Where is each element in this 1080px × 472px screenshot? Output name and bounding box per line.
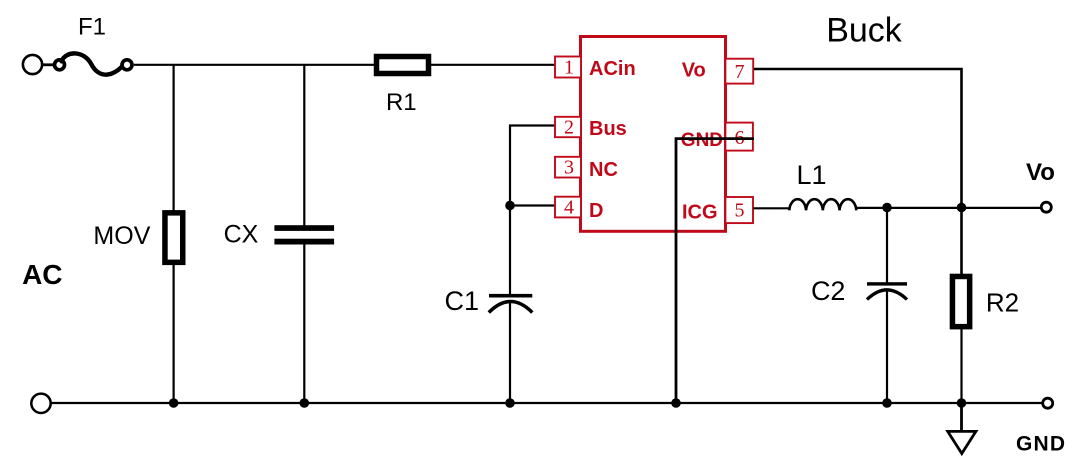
wire Vo rail xyxy=(856,207,1041,209)
resistor R2 xyxy=(952,276,969,326)
terminal Vo output xyxy=(1041,202,1051,212)
junction MOV-bottom rail xyxy=(169,398,179,408)
wire MOV branch top xyxy=(173,65,175,212)
junction C2-bottom rail xyxy=(882,398,892,408)
pin 7 xyxy=(725,59,753,84)
junction C1-bottom rail xyxy=(505,398,515,408)
pin 5 xyxy=(725,197,753,223)
terminal AC live input xyxy=(23,55,42,74)
wire CX bottom xyxy=(303,244,305,403)
junction R2-bottom rail xyxy=(957,398,967,408)
svg-text:R2: R2 xyxy=(986,288,1019,318)
svg-text:GND: GND xyxy=(1016,433,1066,456)
junction L1/C2 node xyxy=(882,203,892,213)
junction Vo node xyxy=(957,203,967,213)
svg-text:1: 1 xyxy=(564,56,574,78)
wire R2 bottom xyxy=(960,329,962,404)
svg-text:7: 7 xyxy=(735,61,745,83)
ground symbol xyxy=(948,403,976,454)
wire GND net from pin6 over IC down to bottom rail xyxy=(676,139,754,403)
svg-text:Vo: Vo xyxy=(1026,159,1055,186)
svg-text:Vo: Vo xyxy=(682,60,706,82)
terminal GND output xyxy=(1043,398,1053,408)
wire Bus net: pin2 left then down to bottom rail xyxy=(510,126,556,296)
svg-text:MOV: MOV xyxy=(93,222,150,250)
capacitor C2 xyxy=(867,208,907,403)
svg-text:2: 2 xyxy=(564,116,574,138)
terminal AC neutral input xyxy=(31,394,50,413)
svg-text:CX: CX xyxy=(224,221,259,249)
op-amp U1 IC body xyxy=(581,37,726,232)
pin 4 xyxy=(555,196,581,218)
resistor R1 xyxy=(377,57,429,74)
capacitor C1 xyxy=(489,294,533,313)
capacitor CX xyxy=(274,225,334,244)
varistor MOV xyxy=(165,213,183,263)
pin 1 xyxy=(555,56,581,78)
svg-text:AC: AC xyxy=(22,259,62,290)
inductor L1 xyxy=(789,199,856,210)
svg-text:L1: L1 xyxy=(796,160,826,190)
svg-text:F1: F1 xyxy=(78,14,106,41)
svg-text:Bus: Bus xyxy=(589,118,627,140)
wire terminal to fuse xyxy=(43,63,53,66)
svg-text:GND: GND xyxy=(681,130,723,151)
svg-text:NC: NC xyxy=(589,159,618,181)
wire bottom rail xyxy=(52,402,1042,404)
svg-text:ACin: ACin xyxy=(589,58,636,80)
svg-text:R1: R1 xyxy=(386,89,417,116)
wire CX branch top xyxy=(303,65,305,226)
wire pin5 to L1 xyxy=(754,207,790,209)
wire MOV bottom xyxy=(173,264,175,403)
svg-text:4: 4 xyxy=(564,196,574,218)
pin 3 xyxy=(555,157,581,179)
pin 2 xyxy=(555,116,581,138)
wire top rail xyxy=(134,64,556,66)
junction GND net-bottom rail xyxy=(671,398,681,408)
junction CX-bottom rail xyxy=(300,398,310,408)
svg-text:5: 5 xyxy=(735,200,745,222)
wire C1 bottom xyxy=(509,302,511,404)
wire pin7 net right and down xyxy=(754,69,962,275)
svg-text:C2: C2 xyxy=(811,276,846,306)
svg-text:C1: C1 xyxy=(445,286,480,316)
svg-text:Buck: Buck xyxy=(826,12,903,50)
svg-text:D: D xyxy=(589,200,603,222)
svg-text:ICG: ICG xyxy=(682,201,718,223)
svg-text:3: 3 xyxy=(564,157,574,179)
pin 6 xyxy=(725,123,753,151)
junction Bus/D node xyxy=(505,201,515,211)
fuse F1 xyxy=(55,53,133,74)
wire D net: pin4 to vertical xyxy=(510,204,556,206)
